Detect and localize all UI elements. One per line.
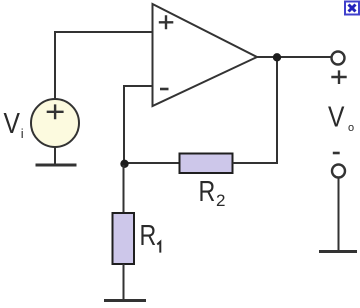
junction node output bbox=[273, 53, 281, 61]
svg-text:o: o bbox=[348, 122, 354, 134]
wire Vi bottom to ground bbox=[54, 147, 56, 164]
ground below Vi bbox=[36, 164, 77, 167]
label Vi bbox=[4, 107, 24, 141]
broken image icon box bbox=[345, 2, 359, 15]
svg-text:i: i bbox=[21, 126, 24, 141]
ground below R1 bbox=[104, 299, 146, 302]
svg-text:R: R bbox=[140, 218, 157, 251]
label Vo bbox=[328, 101, 354, 134]
svg-text:V: V bbox=[328, 101, 344, 133]
resistor R1 bbox=[113, 213, 135, 264]
wire feedback node to R1 bbox=[123, 165, 125, 213]
plus marker non-inverting input bbox=[159, 15, 174, 29]
wire feedback node to R2 bbox=[124, 162, 181, 164]
op-amp U1 bbox=[153, 4, 258, 106]
svg-text:R: R bbox=[199, 174, 216, 207]
output terminal plus bbox=[332, 52, 345, 65]
plus marker inside Vi bbox=[47, 104, 64, 119]
junction node feedback bbox=[120, 160, 128, 168]
minus marker inverting input bbox=[160, 88, 169, 91]
svg-text:V: V bbox=[4, 107, 20, 139]
wire Vi top to op-amp non-inverting input bbox=[55, 32, 153, 100]
label R2 bbox=[199, 174, 226, 210]
minus marker output bbox=[333, 152, 340, 155]
output terminal minus bbox=[332, 165, 345, 178]
plus marker output bbox=[331, 70, 346, 84]
svg-text:2: 2 bbox=[216, 191, 225, 210]
wire R1 to ground bbox=[123, 264, 125, 299]
voltage source Vi bbox=[31, 99, 79, 147]
resistor R2 bbox=[180, 154, 233, 174]
ground below output bbox=[319, 250, 357, 253]
wire op-amp output bbox=[257, 56, 331, 58]
wire R2 to output node bbox=[233, 57, 278, 163]
wire inverting input to feedback node bbox=[124, 86, 153, 163]
wire output terminal to ground bbox=[338, 178, 340, 251]
broken image icon X bbox=[349, 5, 356, 12]
label R1 bbox=[140, 218, 161, 252]
